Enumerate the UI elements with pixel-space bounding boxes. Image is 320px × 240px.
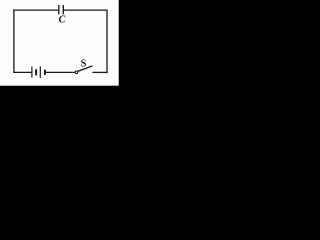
wire top-right horizontal: [64, 9, 108, 11]
wire left vertical: [13, 10, 15, 74]
wire switch-to-corner horizontal: [92, 71, 107, 73]
wire top-left horizontal: [13, 9, 58, 11]
wire bottom-left horizontal: [13, 71, 31, 73]
battery short plate 1: [35, 69, 37, 75]
paper background: [0, 0, 119, 86]
svg-text:S: S: [81, 58, 87, 69]
battery long plate 2: [39, 66, 41, 78]
capacitor C right plate: [62, 5, 64, 14]
battery long plate 1: [31, 67, 33, 78]
svg-text:C: C: [59, 15, 66, 26]
wire right vertical: [106, 10, 108, 74]
wire battery-to-switch horizontal: [46, 71, 76, 73]
switch S pivot circle: [75, 71, 78, 74]
switch S arm: [78, 66, 93, 71]
capacitor C left plate: [58, 5, 60, 14]
battery short plate 2: [44, 70, 46, 75]
